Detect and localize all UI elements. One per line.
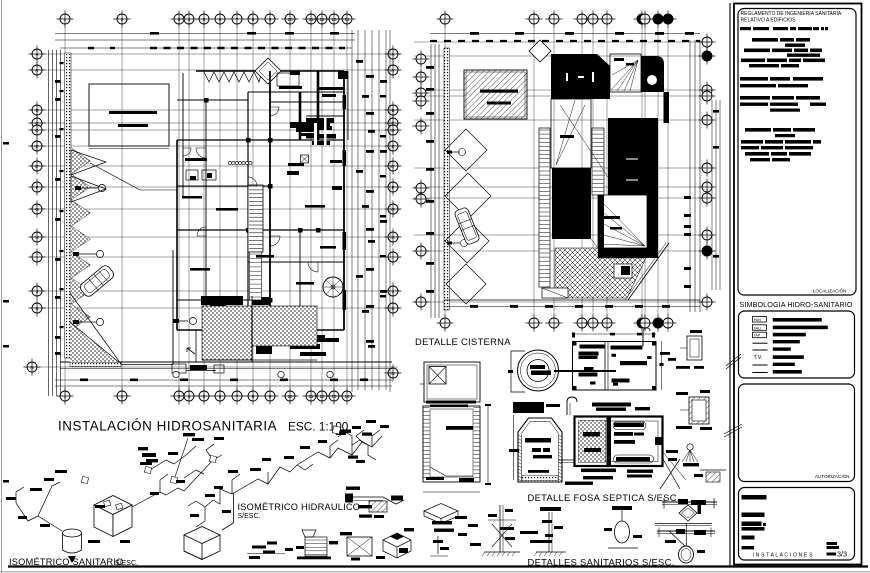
- cisterna open chest below: [424, 504, 458, 524]
- svg-text:AUTORIZACIÓN: AUTORIZACIÓN: [815, 473, 850, 479]
- left plan grid bubbles bottom row: [57, 388, 356, 405]
- svg-text:11: 11: [309, 17, 314, 22]
- white roof room with fan lines: [610, 54, 641, 92]
- svg-text:J: J: [392, 289, 394, 294]
- garden entrance diagonal: [90, 163, 140, 190]
- kitchen fixtures: [185, 158, 207, 161]
- pool south edge lines: [89, 148, 169, 150]
- middle plan grid bubbles left column: [413, 51, 430, 311]
- svg-text:F: F: [392, 185, 395, 190]
- bench south-west (middle plan): [542, 288, 568, 298]
- cisterna pump plan circles: [518, 350, 559, 391]
- svg-text:12: 12: [319, 394, 325, 399]
- svg-text:TAP: TAP: [753, 334, 760, 338]
- left plan south dimension ticks: [80, 379, 88, 382]
- reglamento text bars: [740, 27, 828, 161]
- svg-text:N: N: [30, 365, 33, 370]
- fosa B corner posts: [573, 342, 577, 346]
- cisterna section top bars: [426, 401, 476, 404]
- svg-text:S/ESC.: S/ESC.: [115, 560, 138, 567]
- left plan west boundary ticks: [55, 80, 61, 83]
- left plan top dimension lines: [55, 33, 355, 35]
- garden zigzag stipple fill: [71, 148, 90, 174]
- interior wall horizontal y=186: [177, 185, 270, 187]
- cisterna section bottom dim: [423, 491, 480, 493]
- patio white box with black square: [614, 264, 632, 278]
- svg-text:H: H: [391, 235, 394, 240]
- svg-text:N: N: [391, 371, 394, 376]
- fosa section bars: [525, 438, 551, 443]
- kitchen label bar: [182, 196, 202, 199]
- svg-text:DETALLE CISTERNA: DETALLE CISTERNA: [415, 336, 511, 347]
- leader lines crossing frame 2: [724, 424, 742, 434]
- fosa B right dim: [661, 341, 663, 390]
- middle plan grid bubbles right column: [699, 34, 716, 311]
- east wall black segments: [343, 95, 347, 109]
- south corridor walls: [195, 330, 197, 362]
- page bottom border: [8, 565, 868, 567]
- roof entrance diamond (middle plan): [529, 40, 551, 62]
- isometric sanitario junction cubes: [144, 466, 151, 473]
- entry steps south: [172, 364, 186, 373]
- simbologia icon TAP: [753, 332, 767, 338]
- svg-text:INSTALACIÓN HIDROSANITARIA: INSTALACIÓN HIDROSANITARIA: [58, 419, 277, 434]
- entry arrow: [187, 348, 195, 354]
- simbologia icon FAN: [753, 317, 767, 323]
- svg-text:I: I: [36, 255, 37, 260]
- white room between roof masses: [551, 99, 591, 168]
- isometric sanitario top bars cluster: [142, 453, 156, 457]
- fosa plan corner blacks: [655, 437, 662, 445]
- spiral stair: [323, 277, 343, 297]
- title block outer frame: [734, 4, 862, 565]
- svg-text:B: B: [391, 108, 394, 113]
- middle plan horizontal grid lines: [414, 42, 712, 302]
- garden lamp symbol 4: [176, 320, 188, 322]
- cisterna plan inner box with X: [429, 367, 446, 385]
- left plan grid bubbles left column: [24, 46, 46, 376]
- fosa septica section black cap: [513, 402, 544, 413]
- mini detail bars right: [676, 366, 690, 369]
- sheet number bars: [827, 542, 838, 545]
- leader lines crossing frame 1: [726, 354, 741, 366]
- isometric sanitario cylinder: [63, 529, 82, 537]
- cisterna section floor slope: [430, 467, 473, 476]
- svg-text:S/ESC.: S/ESC.: [238, 513, 261, 520]
- scattered bars right of cisterna details: [455, 516, 467, 519]
- svg-text:E: E: [35, 144, 38, 149]
- building outer wall east: [343, 71, 345, 330]
- bath cluster white slits: [314, 123, 317, 145]
- svg-text:E': E': [391, 164, 395, 169]
- stair lower flight: [250, 252, 262, 300]
- wc cluster north-east: [290, 122, 330, 128]
- interior wall vertical x=318: [317, 71, 320, 140]
- manhole circles south: [173, 371, 179, 377]
- svg-text:RELATIVO A EDIFICIOS: RELATIVO A EDIFICIOS: [741, 18, 797, 24]
- roof black band south of fan: [598, 248, 649, 258]
- svg-text:A': A': [35, 68, 39, 73]
- small hatch detail right of isometrics: [700, 469, 726, 471]
- fosa septica plan: [575, 417, 663, 467]
- svg-text:REGLAMENTO DE INGENIERIA SANIT: REGLAMENTO DE INGENIERIA SANITARIA: [741, 11, 842, 17]
- car in driveway (left plan): [78, 264, 115, 299]
- swimming pool: [89, 84, 169, 146]
- small bars cluster below fosa: [500, 527, 514, 530]
- svg-text:I N S T A L A C I O N E S: I N S T A L A C I O N E S: [753, 552, 814, 558]
- fosa j-pipe top: [567, 397, 577, 415]
- bath fixtures room1: [279, 86, 302, 89]
- title block box reglamento: [738, 9, 856, 296]
- svg-text:11: 11: [309, 394, 314, 399]
- dimension lines between plans: [357, 30, 359, 390]
- left margin tick marks: [3, 142, 9, 145]
- left plan horizontal grid lines: [26, 54, 400, 367]
- simbologia icon FAU: [753, 325, 767, 331]
- cisterna section inner bar: [446, 426, 473, 430]
- svg-text:SIMBOLOGIA HIDRO-SANITARIO: SIMBOLOGIA HIDRO-SANITARIO: [740, 300, 853, 309]
- svg-text:A: A: [35, 52, 38, 57]
- garden big triangles: [71, 150, 106, 175]
- instalaciones bars: [742, 495, 767, 500]
- stair core: [248, 185, 263, 252]
- isometrico hidraulico top-right cluster: [338, 432, 376, 460]
- middle plan west ticks: [426, 66, 434, 69]
- stair fan room: [598, 195, 647, 248]
- svg-text:F: F: [36, 185, 39, 190]
- svg-text:DETALLES SANITARIOS S/ESC.: DETALLES SANITARIOS S/ESC.: [528, 557, 675, 568]
- pump plan bars: [530, 365, 545, 369]
- wc side detail: [499, 505, 501, 552]
- roof tinaco circle: [647, 75, 656, 84]
- interior wall horizontal y=300: [177, 299, 270, 301]
- retaining wall band south-west: [70, 363, 121, 367]
- svg-text:I: I: [392, 255, 393, 260]
- svg-text:14: 14: [344, 17, 350, 22]
- entrance diamond north-west: [255, 58, 281, 84]
- isometric sanitario label bars: [30, 488, 42, 491]
- middle plan garden diamonds: [445, 129, 487, 171]
- garden lamp symbol 3: [76, 321, 96, 323]
- scattered bars mid-bottom: [252, 546, 266, 549]
- svg-text:12: 12: [319, 17, 325, 22]
- fixtures room mid-east: [288, 163, 304, 166]
- door jamb blocks: [246, 138, 251, 143]
- garden zigzag hatched band: [71, 148, 90, 350]
- fosa B top dim: [572, 333, 656, 335]
- courtyard wall x=173: [172, 250, 174, 364]
- roof black column east of fan: [647, 193, 658, 258]
- garden lamp symbol 2: [76, 253, 96, 255]
- isometric sanitario septic box: [94, 496, 132, 537]
- title block box autorizacion: [739, 384, 855, 482]
- middle plan south boundary lines: [445, 299, 700, 301]
- fosa plan bars right cell: [614, 423, 644, 428]
- interior wall vertical x=248: [247, 92, 249, 330]
- cisterna section wall ladder bands: [424, 408, 480, 478]
- long side stair west: [539, 128, 550, 287]
- interior wall horizontal y=100: [177, 99, 248, 101]
- fosa plan top bars: [592, 403, 631, 407]
- hatched terrace roof: [464, 70, 527, 119]
- svg-text:10: 10: [287, 394, 293, 399]
- svg-text:ISOMÉTRICO HIDRAULICO: ISOMÉTRICO HIDRAULICO: [238, 502, 361, 512]
- middle plan west boundary lines: [430, 44, 432, 318]
- patio stipple left: [70, 322, 121, 364]
- registro hatch box detail: [689, 397, 709, 424]
- room labels left plan: [216, 208, 238, 211]
- middle plan interior leaders: [560, 105, 610, 180]
- pump discharge pipe: [554, 370, 616, 372]
- svg-text:DETALLE FOSA SEPTICA S/ESC.: DETALLE FOSA SEPTICA S/ESC.: [528, 492, 680, 503]
- title block box instalaciones: [739, 488, 855, 561]
- coladera mini detail top-right: [687, 336, 702, 360]
- left plan vertical grid lines: [65, 27, 347, 389]
- cisterna mini pipe below: [437, 536, 439, 554]
- interior wall horizontal y=230: [177, 229, 344, 231]
- middle plan south dimension ticks: [470, 305, 478, 308]
- left plan top dimension ticks: [150, 32, 159, 35]
- garden lamp symbol 1: [78, 187, 98, 189]
- interior wall horizontal y=92: [248, 91, 344, 93]
- building outer wall west: [182, 73, 184, 198]
- roof black strip east: [664, 92, 670, 123]
- window sill marks: [228, 161, 252, 164]
- svg-text:10: 10: [287, 17, 293, 22]
- between-plans ticks: [356, 60, 363, 63]
- car in driveway (middle plan): [454, 207, 480, 246]
- interior wall vertical x=270: [269, 71, 271, 310]
- svg-text:K: K: [391, 306, 394, 311]
- left plan west wall stipple band: [65, 53, 72, 358]
- fosa section left dim line: [513, 415, 515, 480]
- svg-text:K: K: [35, 306, 38, 311]
- middle plan top dimension ticks: [470, 32, 479, 35]
- svg-text:14: 14: [344, 394, 350, 399]
- left plan south boundary lines: [60, 361, 392, 363]
- wc plan diamond: [679, 505, 697, 521]
- fosa section B rect: [573, 342, 657, 391]
- small iso box detail: [383, 533, 411, 558]
- cisterna plan: [424, 362, 480, 402]
- svg-text:G: G: [391, 207, 395, 212]
- middle plan west stipple band: [444, 48, 450, 310]
- shower detail right: [687, 444, 693, 450]
- wc/sanitary cluster south-east: [280, 335, 325, 342]
- svg-text:E': E': [35, 164, 39, 169]
- svg-text:LOCALIZACIÓN: LOCALIZACIÓN: [813, 288, 847, 294]
- left plan grid bubbles right column: [385, 46, 402, 382]
- registro bars: [676, 426, 692, 429]
- cisterna section: [423, 406, 480, 482]
- svg-text:FAU: FAU: [754, 326, 761, 330]
- bath walls north-east: [271, 101, 344, 103]
- patio boundary diagonal: [70, 293, 121, 364]
- roof black mass north-west: [551, 54, 610, 99]
- roof black mass north-east: [641, 56, 664, 92]
- building outer wall south: [177, 329, 344, 331]
- cisterna plan bottom bar: [420, 383, 424, 385]
- isometric sanitario pipes: [16, 444, 222, 531]
- mingitorio detail: [615, 521, 630, 543]
- fosa section bottom stipple band: [522, 476, 558, 481]
- svg-text:3/3: 3/3: [837, 550, 847, 559]
- pipe run detail upper: [662, 501, 717, 503]
- middle plan grid bubbles top row: [437, 11, 677, 28]
- interior wall vertical x=206: [205, 100, 207, 330]
- fosa plan pill outlines: [613, 422, 646, 430]
- fosa plan divider: [607, 417, 612, 467]
- fosa plan left cell stipple: [579, 421, 606, 463]
- awning zigzag on north wall: [204, 72, 262, 82]
- mini ladder detail mid: [302, 530, 316, 537]
- middle patio stipple: [555, 248, 646, 298]
- interior wall horizontal y=262: [248, 261, 344, 263]
- svg-text:J: J: [36, 289, 38, 294]
- fosa B vent pipe: [642, 332, 644, 346]
- drawing area right border: [729, 3, 731, 566]
- isometric hidraulico main run: [188, 430, 382, 527]
- roof black mass west-large: [552, 168, 591, 239]
- bath black bars north-east: [306, 118, 334, 123]
- isometric hidraulico open tank: [184, 527, 220, 560]
- simbologia line samples: [753, 342, 768, 344]
- patio stipple centre: [202, 306, 252, 360]
- south thick black band: [201, 296, 243, 305]
- svg-text:FAN: FAN: [754, 318, 761, 322]
- ladder stair vertical (middle plan): [592, 128, 604, 195]
- roof black mass east-large: [608, 118, 658, 195]
- cisterna section dim line right: [487, 404, 489, 485]
- building outer wall north: [196, 70, 344, 72]
- fosa B bars right cell: [611, 346, 643, 350]
- fosa B divider: [604, 342, 606, 391]
- fosa section pipe to plan: [559, 459, 574, 461]
- door arcs: [270, 107, 279, 116]
- pump plan bracket: [511, 351, 525, 392]
- coladera piso detail (mid): [345, 494, 353, 503]
- left plan east boundary lines: [351, 30, 353, 392]
- isometric hidraulico label bars: [205, 494, 215, 497]
- svg-text:13: 13: [331, 394, 337, 399]
- svg-text:G: G: [35, 207, 39, 212]
- lavabo side detail: [548, 512, 550, 552]
- svg-text:A': A': [391, 68, 395, 73]
- registro box south: [214, 365, 224, 373]
- middle plan vertical grid lines: [445, 27, 668, 316]
- wc tank oval: [679, 546, 694, 563]
- roof mass white slits: [566, 73, 568, 81]
- title block box simbologia: [739, 311, 855, 378]
- fan room black left strip: [598, 195, 604, 248]
- interior wall vertical x=300: [299, 92, 302, 140]
- fosa B bars left cell: [580, 345, 605, 349]
- east mass grey slits: [626, 158, 638, 160]
- fosa plan bars left cell: [583, 432, 600, 436]
- middle plan top dimension lines: [430, 33, 700, 35]
- page left edge: [1, 0, 3, 573]
- middle plan east boundary lines: [689, 40, 691, 312]
- left plan west boundary lines: [48, 50, 50, 396]
- box X detail mid: [347, 537, 372, 556]
- left plan east dimension ticks: [366, 75, 374, 78]
- isometrico hidraulico leader line: [233, 493, 235, 523]
- wc side brace: [669, 531, 685, 546]
- svg-text:B: B: [35, 108, 38, 113]
- middle plan grid bubbles bottom row: [437, 315, 677, 332]
- simbologia description bars: [773, 318, 822, 322]
- middle plan east ticks: [684, 196, 691, 199]
- ramp diagonal line: [628, 243, 669, 300]
- fosa plan bottom bars: [581, 469, 616, 473]
- left plan grid bubbles top row: [57, 11, 356, 28]
- svg-text:E: E: [391, 144, 394, 149]
- fosa section wall ticks: [518, 435, 562, 481]
- fosa septica section vessel: [518, 418, 562, 482]
- pipe run detail lower: [655, 523, 712, 525]
- svg-text:13: 13: [331, 17, 337, 22]
- interior wall horizontal y=140: [177, 139, 344, 141]
- svg-text:A: A: [391, 52, 394, 57]
- svg-text:ISOMÉTRICO SANITARIO: ISOMÉTRICO SANITARIO: [9, 557, 124, 567]
- fosa leader X lines: [663, 459, 680, 489]
- svg-text:T.V.: T.V.: [754, 355, 763, 361]
- middle plan diamond door arcs: [459, 149, 466, 156]
- svg-text:H: H: [35, 235, 38, 240]
